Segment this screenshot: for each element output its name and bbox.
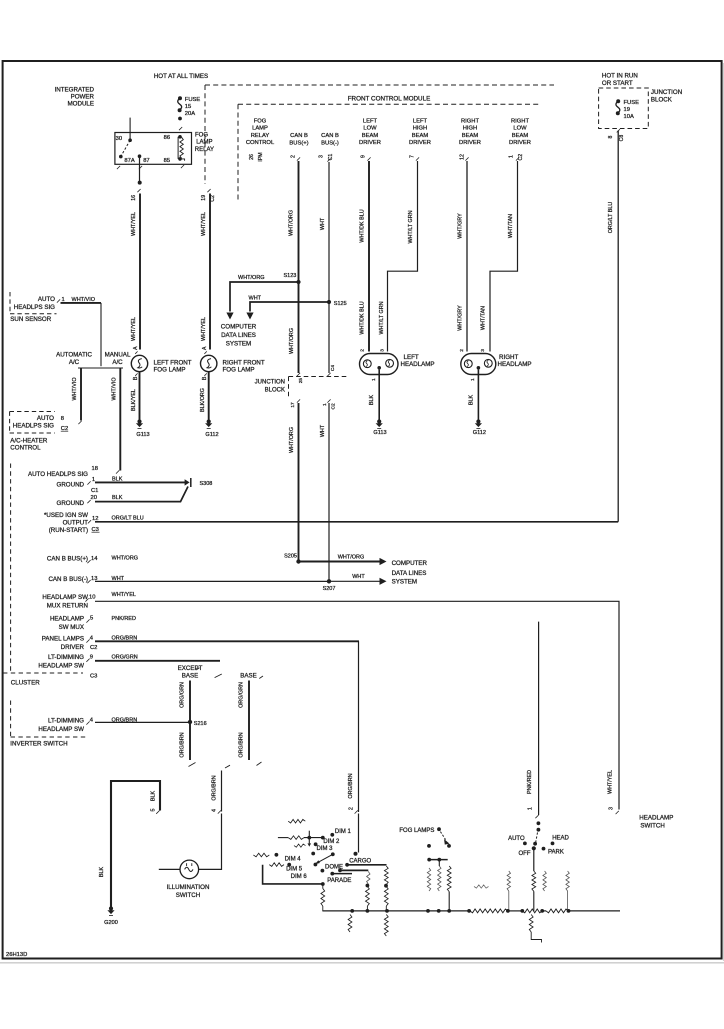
ground G112 right fog lamp	[207, 419, 211, 423]
svg-text:FOG LAMP: FOG LAMP	[154, 367, 186, 374]
resistor below bus with hook	[529, 915, 533, 933]
a/c-heater control dashed box	[10, 411, 55, 413]
resistor below bus x386	[384, 915, 388, 937]
svg-text:PNK/RED: PNK/RED	[527, 770, 533, 794]
svg-text:SYSTEM: SYSTEM	[392, 579, 417, 586]
relay switch arm 30-87A	[121, 140, 130, 156]
svg-text:FOG: FOG	[195, 133, 208, 139]
svg-text:LAMP: LAMP	[252, 126, 268, 132]
wire BLK right headlamp to ground	[477, 370, 479, 420]
wire ORG/BRN inside switch to illumination switch	[199, 814, 222, 870]
svg-text:12: 12	[459, 154, 465, 160]
svg-text:BLK: BLK	[151, 791, 157, 802]
svg-text:LEFT: LEFT	[404, 354, 419, 361]
splice S207 wire WHT	[327, 579, 331, 583]
svg-text:3: 3	[319, 155, 325, 158]
svg-text:1: 1	[528, 807, 534, 810]
resistor below dome L wire	[321, 889, 325, 907]
svg-text:S216: S216	[194, 721, 207, 727]
svg-text:DIM 5: DIM 5	[286, 866, 303, 872]
resistor chain x368	[367, 872, 370, 885]
svg-text:FUSE: FUSE	[624, 100, 640, 106]
svg-text:FUSE: FUSE	[185, 97, 201, 103]
svg-text:18: 18	[92, 466, 98, 472]
svg-text:PARK: PARK	[548, 850, 564, 856]
svg-text:14: 14	[91, 556, 98, 562]
svg-text:G112: G112	[473, 430, 486, 436]
svg-text:BLOCK: BLOCK	[265, 388, 285, 394]
connector ticks under relay	[117, 166, 120, 169]
bus junction nodes	[350, 909, 354, 913]
right headlamp connector	[461, 354, 496, 375]
svg-text:WHT/YEL: WHT/YEL	[112, 592, 136, 598]
svg-text:B: B	[133, 376, 139, 380]
wire stub above relay pin 30	[129, 118, 131, 141]
svg-text:BEAM: BEAM	[512, 133, 529, 139]
svg-text:3: 3	[480, 349, 486, 352]
dimmer rheostat zigzag c	[253, 853, 269, 857]
svg-text:8: 8	[608, 135, 614, 138]
svg-text:RIGHT: RIGHT	[499, 354, 518, 361]
svg-text:87: 87	[143, 158, 149, 164]
svg-text:MODULE: MODULE	[68, 101, 94, 108]
svg-text:ORG/LT BLU: ORG/LT BLU	[112, 516, 144, 522]
cargo contact bar	[345, 863, 349, 867]
svg-text:DIM 6: DIM 6	[291, 874, 308, 880]
svg-text:BLK/ORG: BLK/ORG	[200, 388, 206, 412]
svg-text:(RUN-START): (RUN-START)	[49, 527, 88, 534]
svg-text:LEFT: LEFT	[413, 118, 428, 124]
splice S308	[185, 479, 190, 485]
cluster dashed box	[10, 464, 12, 674]
svg-text:HEADLAMP SW: HEADLAMP SW	[38, 663, 84, 670]
resistor below bus x350	[348, 915, 352, 933]
svg-text:IPM: IPM	[258, 152, 264, 161]
svg-text:ORG/BRN: ORG/BRN	[238, 732, 244, 757]
svg-text:BLK: BLK	[99, 867, 105, 878]
svg-text:A/C: A/C	[112, 359, 123, 366]
svg-text:BASE: BASE	[182, 672, 199, 679]
svg-text:PARADE: PARADE	[327, 878, 351, 884]
svg-text:26: 26	[249, 154, 255, 160]
svg-text:WHT/GRY: WHT/GRY	[458, 213, 464, 239]
dimmer rheostat zigzag a	[288, 819, 305, 823]
contact DIM 4	[311, 852, 315, 856]
svg-text:19: 19	[201, 195, 207, 201]
svg-text:WHT: WHT	[249, 295, 262, 301]
wire PNK/RED to headlamp switch pin 1	[538, 622, 540, 815]
svg-text:CAN B BUS(-): CAN B BUS(-)	[48, 576, 88, 583]
svg-text:WHT/LT GRN: WHT/LT GRN	[379, 301, 385, 334]
svg-text:C1: C1	[328, 154, 334, 161]
right front fog lamp	[201, 355, 217, 371]
svg-text:LT-DIMMING: LT-DIMMING	[48, 654, 84, 661]
svg-text:S123: S123	[284, 273, 297, 279]
svg-text:DIM 3: DIM 3	[317, 846, 334, 852]
svg-text:C1: C1	[91, 488, 98, 494]
node automatic/manual a-c tee	[78, 367, 123, 369]
scan shadow below frame	[0, 962, 724, 964]
wire ORG/GRN base column	[248, 681, 250, 761]
svg-text:DRIVER: DRIVER	[459, 140, 481, 146]
wire ORG/BRN to headlamp switch pin 4	[221, 771, 223, 812]
svg-text:26H13D: 26H13D	[6, 952, 27, 958]
svg-text:7: 7	[410, 155, 416, 158]
svg-text:ORG/GRN: ORG/GRN	[180, 682, 186, 708]
svg-text:RELAY: RELAY	[195, 147, 214, 153]
svg-text:19: 19	[624, 107, 630, 113]
svg-text:DOME: DOME	[325, 864, 343, 870]
dimmer cross contact	[308, 831, 310, 844]
wire WHT CAN B BUS(-) from FCM pin 3 C1	[327, 158, 330, 161]
svg-text:WHT/YEL: WHT/YEL	[201, 212, 207, 236]
svg-text:8: 8	[61, 416, 64, 422]
wire WHT to computer data lines	[250, 302, 329, 312]
svg-text:OUTPUT: OUTPUT	[63, 520, 89, 527]
svg-text:FOG: FOG	[254, 118, 267, 124]
svg-text:87A: 87A	[124, 158, 134, 164]
dimmer rheostat zigzag d	[269, 863, 284, 867]
svg-text:86: 86	[164, 135, 170, 141]
svg-text:GROUND: GROUND	[57, 482, 85, 489]
svg-text:HOT IN RUN: HOT IN RUN	[602, 73, 638, 80]
svg-text:WHT/VIO: WHT/VIO	[72, 377, 78, 400]
svg-text:AUTO HEADLPS SIG: AUTO HEADLPS SIG	[28, 471, 88, 478]
svg-text:ORG/LT BLU: ORG/LT BLU	[608, 202, 614, 234]
svg-text:RIGHT FRONT: RIGHT FRONT	[223, 359, 265, 366]
svg-text:HEADLAMP SW: HEADLAMP SW	[38, 726, 84, 733]
rotary output wire	[533, 848, 535, 871]
rotary resistor to bus	[532, 871, 536, 891]
svg-text:CONTROL: CONTROL	[246, 140, 275, 146]
fog lamps contact bar	[429, 859, 448, 861]
svg-text:A/C-HEATER: A/C-HEATER	[10, 437, 48, 444]
svg-text:C8: C8	[619, 135, 625, 142]
svg-text:BEAM: BEAM	[462, 133, 479, 139]
ground G113 left fog lamp	[137, 419, 141, 423]
svg-text:PNK/RED: PNK/RED	[112, 616, 136, 622]
fuse F15 20A	[178, 96, 182, 100]
svg-text:2: 2	[459, 349, 465, 352]
ground G200	[109, 906, 113, 910]
svg-text:COMPUTER: COMPUTER	[221, 323, 257, 330]
svg-text:S205: S205	[284, 553, 297, 559]
svg-text:1: 1	[92, 477, 95, 483]
svg-text:1: 1	[371, 378, 377, 381]
svg-text:S308: S308	[200, 481, 213, 487]
resistor x567	[566, 871, 569, 891]
fog lamps switch	[437, 827, 441, 831]
svg-text:RIGHT: RIGHT	[461, 118, 479, 124]
left front fog lamp	[131, 355, 147, 371]
svg-text:HEADLAMP SW: HEADLAMP SW	[42, 594, 88, 601]
wire WHT/VIO from sun sensor	[61, 302, 102, 304]
svg-text:BLK: BLK	[469, 395, 475, 406]
ground G112 right headlamp	[476, 419, 480, 423]
wire WHT/GRY right high beam	[465, 157, 468, 160]
svg-text:CAN B: CAN B	[290, 133, 308, 139]
svg-text:2: 2	[291, 155, 297, 158]
svg-text:BEAM: BEAM	[362, 133, 379, 139]
relay coil 86-85	[177, 137, 179, 159]
svg-text:DATA LINES: DATA LINES	[221, 332, 256, 339]
dome circuit L wire	[263, 865, 323, 884]
node under relay pin 87	[138, 181, 142, 185]
wire WHT/VIO to a/c-heater control	[80, 369, 82, 421]
svg-text:A: A	[202, 346, 208, 350]
svg-text:FRONT CONTROL MODULE: FRONT CONTROL MODULE	[348, 96, 431, 103]
svg-text:FOG LAMP: FOG LAMP	[223, 367, 255, 374]
svg-text:DRIVER: DRIVER	[359, 140, 381, 146]
svg-text:HEADLPS SIG: HEADLPS SIG	[14, 304, 55, 311]
dimmer rheostat zigzag b	[294, 844, 306, 847]
dimmer wiper arm	[317, 854, 333, 863]
svg-text:AUTOMATIC: AUTOMATIC	[56, 352, 92, 359]
svg-text:DIM 2: DIM 2	[323, 839, 340, 845]
svg-text:HEADLAMP: HEADLAMP	[498, 361, 532, 368]
svg-text:WHT/YEL: WHT/YEL	[131, 317, 137, 341]
svg-text:LAMP: LAMP	[196, 140, 212, 146]
svg-text:LOW: LOW	[513, 126, 527, 132]
contact DIM 5	[314, 863, 318, 867]
svg-text:WHT/LT GRN: WHT/LT GRN	[408, 210, 414, 243]
svg-text:POWER: POWER	[71, 94, 95, 101]
svg-text:WHT: WHT	[320, 424, 326, 437]
wire WHT/YEL relay 87 to left fog lamp pin 16	[137, 189, 140, 192]
parade contact bar	[330, 872, 334, 876]
svg-text:JUNCTION: JUNCTION	[651, 89, 682, 96]
svg-text:BLK: BLK	[369, 395, 375, 406]
svg-text:ORG/GRN: ORG/GRN	[238, 682, 244, 708]
svg-text:RIGHT: RIGHT	[511, 118, 529, 124]
wire WHT/DK BLU left low beam	[367, 157, 370, 160]
svg-text:LEFT FRONT: LEFT FRONT	[154, 359, 192, 366]
wire WHT/TAN right low beam with jog	[516, 157, 519, 160]
svg-text:9: 9	[361, 155, 367, 158]
svg-text:WHT/ORG: WHT/ORG	[288, 210, 294, 236]
wire WHT/LT GRN left high beam with jog	[416, 157, 419, 160]
svg-text:G200: G200	[104, 920, 118, 926]
svg-text:G113: G113	[373, 430, 386, 436]
svg-text:30: 30	[116, 136, 122, 142]
svg-text:RELAY: RELAY	[251, 133, 270, 139]
svg-text:*USED IGN SW: *USED IGN SW	[44, 512, 88, 519]
svg-text:WHT/ORG: WHT/ORG	[238, 275, 265, 281]
sun sensor dashed box	[9, 292, 11, 314]
dome contact bar	[338, 869, 342, 873]
front control module dashed boundary	[238, 103, 541, 105]
wire BLK/ORG right fog lamp to ground	[208, 372, 210, 420]
svg-text:LEFT: LEFT	[363, 118, 378, 124]
svg-text:MUX RETURN: MUX RETURN	[47, 602, 88, 609]
svg-text:DATA LINES: DATA LINES	[392, 570, 427, 577]
svg-text:BLK/YEL: BLK/YEL	[131, 389, 137, 411]
contact DIM 1	[330, 833, 334, 837]
svg-text:BEAM: BEAM	[412, 133, 429, 139]
svg-text:WHT/ORG: WHT/ORG	[289, 328, 295, 354]
fog switch resistor x429	[427, 868, 430, 891]
junction block wire ends and pins	[297, 373, 300, 376]
svg-text:SW MUX: SW MUX	[59, 624, 84, 631]
svg-text:B: B	[202, 376, 208, 380]
svg-text:3: 3	[609, 807, 615, 810]
rotary center contact	[533, 842, 537, 846]
svg-text:ORG/GRN: ORG/GRN	[112, 655, 138, 661]
svg-text:OFF: OFF	[519, 851, 531, 857]
svg-text:DRIVER: DRIVER	[509, 140, 531, 146]
svg-text:WHT/YEL: WHT/YEL	[131, 212, 137, 236]
svg-text:C2: C2	[210, 195, 216, 202]
svg-text:5: 5	[90, 615, 93, 621]
svg-text:10A: 10A	[624, 114, 634, 120]
svg-text:A: A	[133, 346, 139, 350]
svg-text:1: 1	[508, 155, 514, 158]
dashed split from cluster pin 9 wire	[215, 674, 222, 678]
left headlamp connector	[360, 354, 399, 375]
wire ORG/GRN except base column	[189, 681, 191, 761]
wire WHT/VIO to cluster pin 18	[119, 369, 121, 471]
svg-text:ILLUMINATION: ILLUMINATION	[167, 884, 210, 891]
splice S216	[188, 720, 192, 724]
svg-text:BLK: BLK	[112, 495, 123, 501]
svg-text:CONTROL: CONTROL	[10, 445, 41, 452]
svg-text:WHT/GRY: WHT/GRY	[458, 305, 464, 331]
svg-text:BLOCK: BLOCK	[651, 96, 673, 103]
svg-text:WHT/DK BLU: WHT/DK BLU	[359, 301, 365, 334]
svg-text:25: 25	[298, 378, 304, 384]
wire WHT/ORG to computer data lines	[230, 282, 299, 312]
svg-text:10: 10	[89, 594, 95, 600]
svg-text:JUNCTION: JUNCTION	[255, 379, 285, 385]
splice S123	[296, 280, 300, 284]
svg-text:85: 85	[164, 158, 170, 164]
svg-text:LOW: LOW	[363, 126, 377, 132]
relay pin 87	[138, 154, 142, 158]
svg-text:CARGO: CARGO	[349, 859, 371, 865]
svg-text:INVERTER SWITCH: INVERTER SWITCH	[10, 741, 67, 748]
svg-text:DIM 1: DIM 1	[335, 829, 352, 835]
wire WHT/ORG CAN B BUS(+) from FCM pin 2	[297, 157, 300, 160]
node under fuse F15	[178, 117, 182, 121]
wire ORG/BRN pin 2 into switch	[355, 810, 358, 813]
headlamp rotary switch feed contacts	[537, 821, 541, 825]
svg-text:HEAD: HEAD	[552, 836, 569, 842]
svg-text:LT-DIMMING: LT-DIMMING	[48, 718, 84, 725]
svg-text:WHT/ORG: WHT/ORG	[289, 427, 295, 453]
svg-text:20A: 20A	[185, 111, 195, 117]
svg-text:16: 16	[131, 195, 137, 201]
svg-text:WHT/DK BLU: WHT/DK BLU	[359, 209, 365, 242]
svg-text:SYSTEM: SYSTEM	[226, 341, 251, 348]
svg-text:A/C: A/C	[69, 359, 80, 366]
svg-text:HIGH: HIGH	[413, 126, 428, 132]
svg-text:4: 4	[211, 809, 217, 812]
svg-text:HEADLPS SIG: HEADLPS SIG	[13, 423, 54, 430]
dashed merge to single ORG/BRN wire	[189, 763, 196, 767]
svg-text:ORG/BRN: ORG/BRN	[180, 732, 186, 757]
contact DIM 2	[321, 836, 325, 840]
contact DIM 3	[314, 842, 318, 846]
svg-text:15: 15	[185, 104, 191, 110]
svg-text:G112: G112	[205, 432, 218, 438]
illumination switch left stub	[159, 868, 180, 870]
svg-text:WHT: WHT	[352, 574, 365, 580]
svg-text:INTEGRATED: INTEGRATED	[55, 87, 95, 94]
illumination switch	[180, 860, 199, 879]
svg-text:20: 20	[91, 495, 97, 501]
svg-text:5: 5	[150, 809, 156, 812]
svg-text:HEADLAMP: HEADLAMP	[639, 815, 673, 822]
svg-text:PANEL LAMPS: PANEL LAMPS	[42, 636, 84, 643]
resistor x508	[507, 871, 510, 891]
svg-text:C4: C4	[330, 365, 336, 371]
wire BLK left headlamp to ground	[378, 370, 380, 420]
fuse F19 10A	[616, 99, 620, 103]
wire WHT/YEL to right fog lamp pin 19 C2	[207, 189, 210, 192]
svg-text:BUS(-): BUS(-)	[321, 140, 339, 146]
junction block dashed box	[599, 88, 649, 129]
svg-text:COMPUTER: COMPUTER	[392, 560, 428, 567]
svg-text:SWITCH: SWITCH	[176, 892, 200, 899]
svg-text:WHT/YEL: WHT/YEL	[201, 317, 207, 341]
svg-text:1: 1	[322, 403, 328, 406]
svg-text:DIM 4: DIM 4	[285, 857, 302, 863]
fog switch resistor x449	[447, 866, 451, 892]
junction block middle dashed boundary	[289, 376, 348, 378]
svg-text:WHT/ORG: WHT/ORG	[338, 554, 365, 560]
svg-text:GROUND: GROUND	[57, 500, 85, 507]
svg-text:CAN B BUS(+): CAN B BUS(+)	[47, 556, 88, 563]
svg-text:9: 9	[90, 655, 93, 661]
svg-text:WHT/TAN: WHT/TAN	[508, 214, 514, 238]
svg-text:C2: C2	[90, 645, 97, 651]
inverter switch dashed box	[10, 701, 12, 738]
svg-text:2: 2	[360, 349, 366, 352]
svg-text:WHT/YEL: WHT/YEL	[608, 770, 614, 794]
svg-text:C2: C2	[330, 403, 336, 409]
relay K1 fog lamp relay box	[115, 133, 192, 165]
headlamp rotary wiper dashed	[535, 833, 537, 845]
svg-text:CLUSTER: CLUSTER	[11, 679, 40, 686]
svg-text:WHT/TAN: WHT/TAN	[481, 306, 487, 330]
svg-text:FOG LAMPS: FOG LAMPS	[399, 828, 434, 834]
svg-text:HEADLAMP: HEADLAMP	[401, 361, 435, 368]
svg-text:BUS(+): BUS(+)	[289, 140, 308, 146]
svg-text:WHT: WHT	[320, 217, 326, 230]
svg-text:SUN SENSOR: SUN SENSOR	[10, 316, 51, 323]
svg-text:17: 17	[290, 402, 296, 408]
svg-text:HOT AT ALL TIMES: HOT AT ALL TIMES	[154, 73, 208, 80]
svg-text:HIGH: HIGH	[463, 126, 478, 132]
svg-text:HEADLAMP: HEADLAMP	[50, 616, 84, 623]
svg-text:3: 3	[380, 349, 386, 352]
fog switch resistor x439	[438, 866, 441, 891]
svg-text:CAN B: CAN B	[321, 133, 339, 139]
node at end of pin 2 wire	[354, 852, 358, 856]
svg-text:1: 1	[470, 378, 476, 381]
ground G113 left headlamp	[377, 419, 381, 423]
resistor chain x386	[384, 866, 388, 885]
svg-text:OR START: OR START	[602, 80, 633, 87]
svg-text:SWITCH: SWITCH	[640, 823, 664, 830]
svg-text:ORG/BRN: ORG/BRN	[348, 773, 354, 798]
wire BLK headlamp switch pin 5 to ground	[111, 781, 160, 907]
svg-text:DRIVER: DRIVER	[409, 140, 431, 146]
svg-text:C2: C2	[518, 154, 524, 161]
wire BLK/YEL left fog lamp to ground	[139, 372, 141, 420]
wire WHT below junction block pin 1 C2	[327, 399, 330, 402]
dimmer wiper bus with zigzag	[278, 837, 288, 839]
